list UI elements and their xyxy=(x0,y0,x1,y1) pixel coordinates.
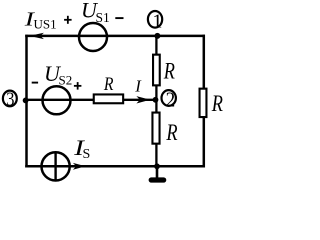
resistor R right xyxy=(200,89,207,117)
wire left vertical xyxy=(25,35,28,168)
label − (U_S1 right polarity) xyxy=(115,17,123,19)
current source arrow I_S xyxy=(73,163,86,170)
svg-text:S1: S1 xyxy=(96,10,110,25)
resistor R bottom middle xyxy=(152,113,159,144)
svg-text:1: 1 xyxy=(152,11,162,33)
label − (U_S2 left polarity) xyxy=(32,82,38,84)
wire right vertical xyxy=(203,35,206,168)
svg-text:US1: US1 xyxy=(34,17,57,32)
svg-text:R: R xyxy=(103,75,113,95)
svg-text:S2: S2 xyxy=(59,73,73,88)
voltage source U_S1 xyxy=(79,23,107,51)
node 1 circle xyxy=(148,11,162,28)
current arrow I_US1 on top wire pointing left xyxy=(29,33,44,39)
wire top horizontal xyxy=(25,35,205,38)
label + (U_S2 right polarity) xyxy=(74,85,82,87)
wire middle row horizontal xyxy=(26,99,94,101)
current arrow I into node 2 xyxy=(136,96,150,103)
ground xyxy=(156,166,159,178)
junction dot node 2 xyxy=(153,97,159,103)
svg-text:R: R xyxy=(166,120,178,146)
current source I_S xyxy=(42,152,70,180)
resistor R top middle xyxy=(153,55,160,86)
wire middle vertical branch xyxy=(155,36,157,55)
node 3 circle xyxy=(3,91,17,107)
resistor R horizontal xyxy=(94,94,123,103)
label + (U_S1 left polarity) xyxy=(64,19,72,21)
svg-text:R: R xyxy=(211,91,223,117)
svg-text:S: S xyxy=(83,147,91,162)
junction dot ground xyxy=(154,163,160,169)
node 2 circle xyxy=(162,90,176,106)
junction dot node 1 xyxy=(154,33,160,39)
svg-text:2: 2 xyxy=(166,88,176,112)
wire bottom horizontal xyxy=(25,165,205,168)
svg-text:3: 3 xyxy=(6,88,14,110)
junction dot node 3 xyxy=(23,98,29,104)
svg-text:R: R xyxy=(163,59,175,85)
voltage source U_S2 xyxy=(43,86,71,114)
svg-text:I: I xyxy=(134,77,142,96)
